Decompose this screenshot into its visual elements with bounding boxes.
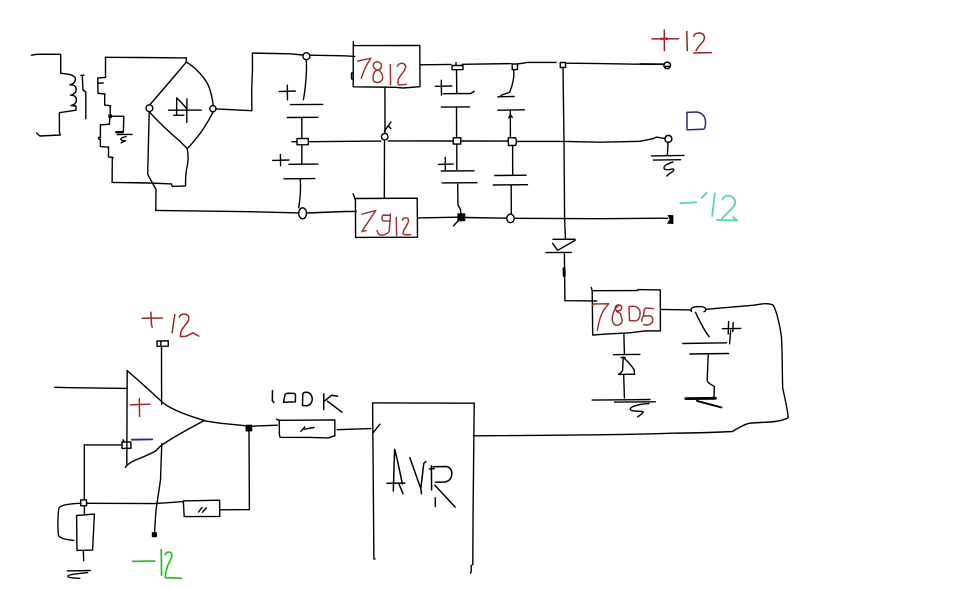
label -12 bottom left <box>133 550 182 579</box>
node junction oval on -12 rail at C6 <box>507 214 514 223</box>
resistor R3 inner tick <box>301 427 314 432</box>
wire -12 rail from 7912 output <box>418 217 668 219</box>
transformer T1 secondary winding tick <box>99 82 104 84</box>
bridge rectifier BR1 right terminal circle <box>210 106 216 112</box>
terminal -12 supply square <box>153 533 157 537</box>
capacitor C1 bottom wire <box>301 117 303 138</box>
wire bridge bottom vertex to AC2 <box>171 149 188 187</box>
wire output node to R3 <box>252 425 278 426</box>
label 7912 digit 7 <box>362 211 376 232</box>
node junction oval at -12 rail <box>299 208 307 219</box>
wire +12 rail from 7812 output <box>420 62 664 64</box>
terminal -12 filled <box>668 216 673 224</box>
resistor R2 box <box>77 514 95 550</box>
node junction rect on +12 rail at C3 <box>452 63 463 70</box>
label +12 above op-amp <box>142 312 199 336</box>
capacitor C6 plates <box>493 175 527 185</box>
wire regulators ground pin lower <box>383 140 385 198</box>
node junction square on +12 rail at C5 <box>512 64 517 70</box>
wire 5V loop to AVR <box>474 304 788 436</box>
label 7912 digit 1 <box>395 218 397 236</box>
wire raw + rail to 7812 input <box>252 53 354 56</box>
bridge rectifier BR1 top-left edge <box>150 62 187 104</box>
label 7812 digit 1 <box>389 65 391 85</box>
capacitor C3 plates <box>441 91 474 107</box>
wire -input to feedback node <box>84 444 122 446</box>
ground below 7805 <box>592 400 655 417</box>
tick at AVR input <box>373 424 380 432</box>
diode D2 <box>546 239 575 252</box>
label plus inside op-amp <box>130 399 150 417</box>
node junction square at op-amp output <box>246 425 251 431</box>
capacitor C2 plates <box>284 164 318 179</box>
capacitor C5 plates <box>498 97 525 111</box>
capacitor C7 bottom wire <box>623 375 626 398</box>
regulator U1 7812 ground pin <box>384 87 386 133</box>
capacitor C5 bottom wire <box>509 110 512 138</box>
wire diode D2 to 7805 input <box>564 254 596 301</box>
label +12 top right bright center <box>661 37 669 40</box>
label minus inside op-amp <box>132 438 152 440</box>
node junction square on +12 rail at diode <box>560 62 565 67</box>
capacitor C2 bottom wire <box>299 179 301 208</box>
wire 7805 output <box>660 308 690 311</box>
bridge rectifier BR1 top vertex stem <box>185 58 187 62</box>
transformer T1 primary top lead <box>31 54 60 73</box>
bridge rectifier BR1 bottom-left edge <box>149 112 187 149</box>
bridge rectifier BR1 left terminal circle <box>146 105 153 112</box>
wire op-amp V- pin <box>155 443 162 531</box>
regulator U1 7812 left edge notch <box>352 73 354 79</box>
node junction rect at mid rail start <box>292 139 308 145</box>
label 100K digit 0a <box>284 393 296 402</box>
wire +12 feed down to diode D2 <box>563 68 565 239</box>
wire diode D2 blob segment <box>563 269 566 276</box>
wire AVR right pin <box>472 435 475 437</box>
wire -12 raw rail <box>156 210 357 213</box>
label 7812 digit 7 <box>358 58 371 78</box>
capacitor C5 top wire <box>501 70 514 96</box>
terminal +12 circle <box>640 62 671 69</box>
capacitor C3 top wire <box>456 70 458 94</box>
transformer T1 secondary winding lower half <box>99 117 114 182</box>
node junction tail at C4 <box>453 221 458 226</box>
ground at D terminal <box>652 143 685 177</box>
resistor R1 feedback box <box>183 500 220 516</box>
node junction circle regulators ground <box>381 133 388 140</box>
label 7812 digit 2 <box>397 63 406 85</box>
tick mark on ground pin <box>384 122 391 131</box>
resistor R1 inner ticks <box>199 508 207 513</box>
wire feedback node vertical <box>83 445 85 500</box>
capacitor C7 plate bottom <box>619 373 635 375</box>
terminal +12 supply rect <box>157 341 168 347</box>
capacitor C4 polarity plus <box>438 158 453 171</box>
capacitor C7 plate top <box>614 353 640 355</box>
label 100K letter K <box>324 394 342 412</box>
regulator U1 7812 box <box>353 42 420 88</box>
bridge rectifier BR1 inner diode <box>169 98 202 123</box>
capacitor C8 bottom wire <box>707 355 714 398</box>
black handwritten text 100K <box>272 391 342 413</box>
transformer T1 secondary winding <box>98 57 111 114</box>
capacitor C8 top wire <box>696 312 710 337</box>
node junction rect at -input <box>122 440 131 449</box>
wire secondary top to bridge <box>106 56 187 59</box>
label -12 top right <box>680 193 737 221</box>
bridge rectifier BR1 top-right edge <box>187 62 214 105</box>
wire feedback node to R1 <box>87 502 184 504</box>
terminal D circle <box>665 135 672 142</box>
capacitor C4 plates <box>441 171 477 183</box>
red text group <box>358 58 654 330</box>
node center tap junction dot <box>109 115 111 117</box>
capacitor C8 plates <box>683 343 729 354</box>
label 7805 digit 0 <box>629 306 640 321</box>
capacitor C2 top wire <box>301 145 303 164</box>
label +12 top right <box>652 30 711 53</box>
node junction square feedback node <box>81 500 87 506</box>
capacitor C2 polarity plus <box>273 155 289 166</box>
op-amp U4 left edge <box>126 371 128 465</box>
label 7912 digit 9 <box>377 214 391 235</box>
node junction rect on mid rail at C3 <box>453 138 461 144</box>
label 7912 digit 2 <box>402 218 410 235</box>
wire bridge right vertex up to +rail <box>216 53 253 111</box>
capacitor C6 top wire <box>512 146 514 174</box>
label 7812 digit 8 <box>373 62 383 83</box>
label 7805 digit 8 <box>612 305 622 325</box>
op-amp U4 bottom edge <box>125 420 204 467</box>
AVR box U5 <box>373 403 475 573</box>
regulator U3 7805 box <box>591 288 660 336</box>
wire op-amp +input <box>55 387 128 388</box>
resistor R3 100K box <box>277 419 335 438</box>
wire loop curve at feedback node <box>58 503 81 540</box>
wire R1 to output node <box>220 431 250 510</box>
label AVR <box>387 449 455 507</box>
regulator U2 7912 box <box>353 194 417 238</box>
label 7805 digit 5 <box>642 308 654 325</box>
node junction square on -12 rail at C4 <box>458 214 465 221</box>
node junction square on mid rail at C5 <box>508 138 516 146</box>
capacitor C4 bottom wire <box>458 184 461 214</box>
bridge rectifier BR1 bottom-right edge <box>187 112 213 148</box>
label 7805 digit 7 <box>593 304 609 330</box>
capacitor C3 polarity plus <box>435 80 451 95</box>
op-amp U4 top edge <box>127 371 204 421</box>
capacitor C1 polarity plus <box>279 85 295 100</box>
capacitor C4 top wire <box>456 144 458 169</box>
wire op-amp V+ pin <box>161 347 163 405</box>
wire R2 to ground <box>82 550 84 560</box>
wire feedback node to R2 <box>83 506 85 516</box>
transformer T1 core <box>81 75 86 119</box>
capacitor C6 bottom wire <box>510 186 512 214</box>
capacitor C3 bottom wire <box>456 107 458 138</box>
ground at C8 diagonal <box>697 401 721 408</box>
transformer T1 primary winding <box>59 73 76 132</box>
wire center tap to ground <box>111 116 124 131</box>
regulator U3 7805 ground pin <box>623 334 626 354</box>
label D output <box>687 112 706 130</box>
ground at C8 <box>686 397 716 400</box>
capacitor C1 top wire <box>303 60 306 100</box>
wire mid rail GND <box>308 137 665 142</box>
capacitor C7 polarity mark <box>619 357 635 374</box>
label 100K digit 1 <box>272 391 274 403</box>
label 100K digit 0b <box>303 392 313 406</box>
capacitor C1 plates <box>287 104 322 117</box>
wire secondary bottom to bridge <box>112 182 171 184</box>
ground at transformer center tap <box>116 131 123 133</box>
transformer T1 primary bottom lead <box>37 132 61 136</box>
wire R3 to AVR <box>337 429 371 430</box>
node junction oval at 7805 output <box>691 307 706 312</box>
wire op-amp output <box>204 421 246 426</box>
node junction circle at C1 top <box>303 53 310 60</box>
ground below R2 <box>67 571 90 579</box>
wire bridge left vertex down to -12 rail <box>148 112 156 211</box>
capacitor C8 polarity plus <box>723 322 741 344</box>
